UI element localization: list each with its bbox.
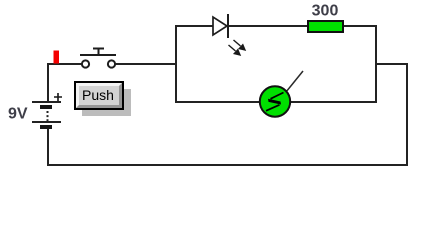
svg-text:9V: 9V	[8, 106, 28, 123]
wire battery top vertical	[47, 63, 49, 102]
wire switch to left bar	[115, 63, 177, 65]
wire lower branch left	[175, 101, 260, 103]
wire right vertical bar (node B)	[375, 25, 377, 103]
wire top-left horizontal to switch	[47, 63, 82, 65]
wire LED to resistor	[228, 25, 308, 27]
wire lower branch right	[290, 101, 377, 103]
LED D1	[213, 14, 245, 55]
svg-text:300: 300	[312, 3, 339, 20]
wire right rail vertical	[406, 63, 408, 166]
wire bottom rail	[47, 164, 408, 166]
wire resistor to top-right corner	[342, 25, 377, 27]
wire node B to right rail	[375, 63, 408, 65]
red probe marker	[54, 51, 60, 64]
battery B1 9V	[32, 93, 62, 127]
svg-text:Push: Push	[82, 87, 114, 103]
wire top branch left of LED	[175, 25, 214, 27]
lamp / motor M1 (green)	[260, 71, 303, 117]
wire left vertical bar (node A)	[175, 25, 177, 103]
Push button graphic	[75, 82, 131, 116]
wire battery bottom vertical	[47, 128, 49, 166]
resistor R1 300	[308, 21, 343, 32]
push switch SW1 symbol	[80, 49, 116, 68]
